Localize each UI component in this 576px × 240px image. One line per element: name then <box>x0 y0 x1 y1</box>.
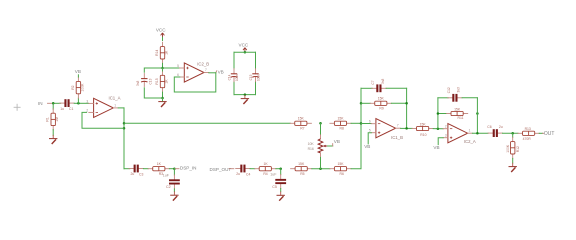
svg-text:1K: 1K <box>157 162 162 166</box>
svg-text:R13: R13 <box>525 127 531 131</box>
wire C12 to right vertical <box>462 97 477 99</box>
wire C2 to ground <box>173 189 175 192</box>
op-amp IC2_B <box>177 61 209 82</box>
svg-text:100n: 100n <box>257 74 261 81</box>
net label VCC top middle <box>156 28 166 38</box>
capacitor C14 <box>228 69 239 82</box>
wire R6 to IC1_B branch <box>351 88 361 168</box>
node C5 top <box>279 167 282 170</box>
svg-text:15K: 15K <box>378 97 385 101</box>
wire R5 to trimmer node <box>312 168 330 170</box>
capacitor C2 <box>166 175 180 189</box>
svg-text:470R: 470R <box>523 137 532 141</box>
resistor R14 <box>155 42 169 63</box>
wire IC1_A output <box>118 107 124 109</box>
resistor R11 <box>447 107 468 120</box>
wire IC2_A pin3 to VB <box>438 138 443 145</box>
svg-text:C3: C3 <box>139 172 143 176</box>
svg-text:6: 6 <box>369 120 371 124</box>
ground below divider <box>158 98 166 107</box>
svg-text:VB: VB <box>218 69 224 74</box>
wire R9 to right vertical <box>391 102 406 104</box>
svg-text:1M: 1M <box>55 117 59 122</box>
svg-text:R16: R16 <box>308 147 314 151</box>
resistor R3 <box>148 162 169 176</box>
wire bottom row left <box>124 168 130 170</box>
ground below R12 <box>509 163 517 172</box>
wire node to C5 <box>280 169 282 175</box>
svg-text:C6: C6 <box>487 125 491 129</box>
wire pin6 IC1_B <box>361 123 371 125</box>
svg-text:15K: 15K <box>454 107 461 111</box>
wire IC2_A output <box>472 132 488 134</box>
wire IC2_A feedback left vertical <box>437 98 439 129</box>
wire IC2_B output <box>209 72 216 74</box>
svg-text:DSP_OUT: DSP_OUT <box>210 167 232 172</box>
svg-text:VB: VB <box>433 145 439 150</box>
svg-text:R6: R6 <box>340 172 344 176</box>
op-amp IC1_B <box>369 119 403 141</box>
node R9 right <box>405 102 408 105</box>
node IC2_A output <box>476 132 479 135</box>
resistor R4 <box>255 162 276 176</box>
svg-text:1: 1 <box>469 129 471 133</box>
node trimmer bottom <box>319 167 322 170</box>
node junction at R2 bottom <box>77 102 80 105</box>
wire node to C2 <box>173 169 175 175</box>
svg-text:R11: R11 <box>458 116 464 120</box>
svg-text:C14: C14 <box>228 74 232 80</box>
svg-text:C1: C1 <box>69 107 73 111</box>
capacitor C1 <box>60 99 74 111</box>
wire IC1_B output <box>401 127 413 129</box>
resistor R15 <box>155 71 169 92</box>
svg-text:2u: 2u <box>499 125 503 129</box>
net label IN <box>38 101 53 106</box>
svg-text:1u: 1u <box>60 107 64 111</box>
svg-text:2: 2 <box>445 124 447 128</box>
wire IC2_A feedback right vertical <box>476 98 478 134</box>
capacitor C4 <box>236 165 251 177</box>
svg-text:IC1_A: IC1_A <box>109 95 121 100</box>
wire R11 row <box>438 113 447 115</box>
wire trimmer top connection <box>320 123 322 135</box>
wire long signal row to right <box>124 122 290 124</box>
svg-text:3n3: 3n3 <box>456 87 460 93</box>
svg-text:10K: 10K <box>308 142 315 146</box>
wire R4 to node <box>276 168 281 170</box>
wire divider node up/down <box>162 68 164 71</box>
svg-text:C13: C13 <box>149 78 153 84</box>
wire R1 top <box>52 103 54 109</box>
svg-text:R12: R12 <box>516 146 520 152</box>
svg-text:3: 3 <box>445 134 447 138</box>
svg-text:1uF: 1uF <box>270 173 277 177</box>
svg-text:IC1_B: IC1_B <box>391 135 403 140</box>
svg-text:3n3: 3n3 <box>381 78 385 84</box>
wire decoupling top rail <box>234 51 256 53</box>
capacitor C12 <box>447 87 462 102</box>
svg-text:1K: 1K <box>165 79 169 84</box>
wire R3 to DSP_IN node <box>169 168 174 170</box>
svg-text:R9: R9 <box>379 107 383 111</box>
resistor R6 <box>330 162 351 176</box>
node divider mid <box>161 67 164 70</box>
wire feedback right vertical <box>406 88 408 128</box>
wire IC1_B pin5 to VB <box>368 133 371 144</box>
svg-text:3n3: 3n3 <box>136 80 140 86</box>
wire node to R12 <box>512 133 514 137</box>
svg-text:5: 5 <box>369 129 371 133</box>
svg-text:VB: VB <box>75 69 81 74</box>
svg-text:1K: 1K <box>264 162 269 166</box>
svg-text:5: 5 <box>177 64 179 68</box>
ground below C2 <box>170 191 178 200</box>
svg-text:IN: IN <box>38 101 43 106</box>
ground below R1 <box>49 135 57 144</box>
svg-text:7: 7 <box>205 68 207 72</box>
node junction feedback <box>123 127 126 130</box>
net label DSP_IN <box>174 166 196 171</box>
svg-text:2u: 2u <box>131 172 135 176</box>
svg-text:VCC: VCC <box>156 28 166 33</box>
svg-text:R2: R2 <box>71 85 75 89</box>
wire C12 row <box>438 97 448 99</box>
svg-text:3: 3 <box>86 100 88 104</box>
svg-text:R8: R8 <box>340 127 344 131</box>
capacitor C6 <box>487 125 502 137</box>
resistor R12 <box>506 137 520 158</box>
node IC2_A inverting input <box>437 127 440 130</box>
svg-text:R7: R7 <box>300 127 304 131</box>
resistor R10 <box>412 122 433 136</box>
node decoupling bottom <box>244 93 247 96</box>
wire divider node to IC2_B pin5 <box>163 67 180 69</box>
origin cross <box>14 104 21 111</box>
wire junction to R2 <box>77 98 79 103</box>
svg-text:100n: 100n <box>235 74 239 81</box>
wire C5 to ground <box>280 189 282 192</box>
wire C3 to R3 <box>143 168 148 170</box>
wire C7 to right vertical <box>386 87 407 89</box>
wire decoupling right edge <box>255 52 257 69</box>
wire VCC to R14 <box>162 38 164 41</box>
svg-text:R4: R4 <box>263 172 267 176</box>
node R12 top <box>511 132 514 135</box>
svg-text:1: 1 <box>114 104 116 108</box>
capacitor C13 <box>136 74 153 87</box>
net label VB above R2 <box>75 69 81 77</box>
svg-text:15K: 15K <box>298 117 305 121</box>
node IC1_B summing <box>360 102 363 105</box>
svg-text:C4: C4 <box>246 172 250 176</box>
svg-text:C7: C7 <box>371 80 375 84</box>
wire decoupling left edge <box>233 52 235 69</box>
wire R12 to ground <box>512 158 514 163</box>
resistor R2 <box>71 77 85 98</box>
op-amp IC2_A <box>443 124 476 145</box>
wire trimmer bottom connection <box>320 157 322 168</box>
svg-text:1uF: 1uF <box>163 174 170 178</box>
wire C4 to R4 <box>250 168 255 170</box>
wire IN to C1 <box>53 102 60 104</box>
wire R1 to ground <box>52 130 54 136</box>
wire R9 row <box>361 102 370 104</box>
node DSP_IN <box>173 167 176 170</box>
svg-text:VB: VB <box>334 139 340 144</box>
wire R8 to IC1_B node <box>351 122 361 124</box>
svg-text:VB: VB <box>364 144 370 149</box>
node IC1_B output <box>405 127 408 130</box>
ground below C5 <box>277 192 285 201</box>
resistor R8 <box>330 117 351 131</box>
net label VB at IC2_B output <box>215 71 218 73</box>
svg-text:C15: C15 <box>249 74 253 80</box>
capacitor C7 <box>371 78 386 92</box>
node R11 left <box>437 112 440 115</box>
wire C1 to IC1_A input <box>74 102 88 104</box>
resistor R13 <box>518 127 539 141</box>
op-amp IC1_A <box>86 95 120 117</box>
svg-text:100K: 100K <box>506 144 510 153</box>
svg-text:2u: 2u <box>236 172 240 176</box>
resistor R9 <box>370 97 391 111</box>
svg-text:1K: 1K <box>165 50 169 55</box>
svg-text:C5: C5 <box>272 185 277 189</box>
svg-text:15K: 15K <box>337 117 344 121</box>
svg-text:15K: 15K <box>298 162 305 166</box>
wire C13 branch loop <box>144 68 162 72</box>
wire output vertical down <box>123 108 125 169</box>
wire R14 to node <box>162 63 164 68</box>
capacitor C3 <box>129 165 143 177</box>
svg-text:R1: R1 <box>46 117 50 121</box>
svg-text:OUT: OUT <box>544 131 555 137</box>
svg-text:R15: R15 <box>155 78 159 84</box>
wire R13 to OUT <box>539 132 542 134</box>
node junction at IN <box>52 102 55 105</box>
svg-text:15K: 15K <box>337 162 344 166</box>
wire IC1_A feedback <box>82 112 124 128</box>
node R11 right <box>476 112 479 115</box>
svg-text:15K: 15K <box>420 122 427 126</box>
svg-text:C2: C2 <box>166 185 171 189</box>
svg-text:R5: R5 <box>300 172 304 176</box>
capacitor C15 <box>249 69 260 82</box>
svg-text:VCC: VCC <box>239 43 249 48</box>
trimmer R16 <box>308 135 328 158</box>
wire R10 to IC2_A node <box>433 128 443 130</box>
node divider bottom <box>161 97 164 100</box>
net label DSP_OUT <box>210 167 234 172</box>
wire IC2_B feedback <box>174 73 216 92</box>
resistor R7 <box>290 117 311 131</box>
svg-text:100K: 100K <box>80 83 84 92</box>
svg-text:7: 7 <box>397 123 399 127</box>
wire decoupling bottom rail <box>234 94 256 96</box>
net label OUT <box>543 131 555 137</box>
wire C6 to output node <box>503 132 519 134</box>
net label VCC decoupling <box>239 43 249 53</box>
wire wiper to VB <box>328 145 333 147</box>
node junction long wire <box>123 122 126 125</box>
resistor R1 <box>46 109 60 130</box>
node decoupling top <box>244 51 247 54</box>
resistor R5 <box>291 162 312 176</box>
svg-text:C12: C12 <box>447 87 451 93</box>
ground decoupling <box>241 95 249 104</box>
svg-text:R14: R14 <box>155 50 159 56</box>
svg-text:IC2_B: IC2_B <box>197 61 209 66</box>
capacitor C5 <box>272 175 286 190</box>
wire C7 feedback row <box>361 87 372 89</box>
node trimmer top <box>319 122 322 125</box>
svg-text:DSP_IN: DSP_IN <box>180 166 197 171</box>
svg-text:IC2_A: IC2_A <box>464 139 476 144</box>
svg-text:R10: R10 <box>420 133 426 137</box>
